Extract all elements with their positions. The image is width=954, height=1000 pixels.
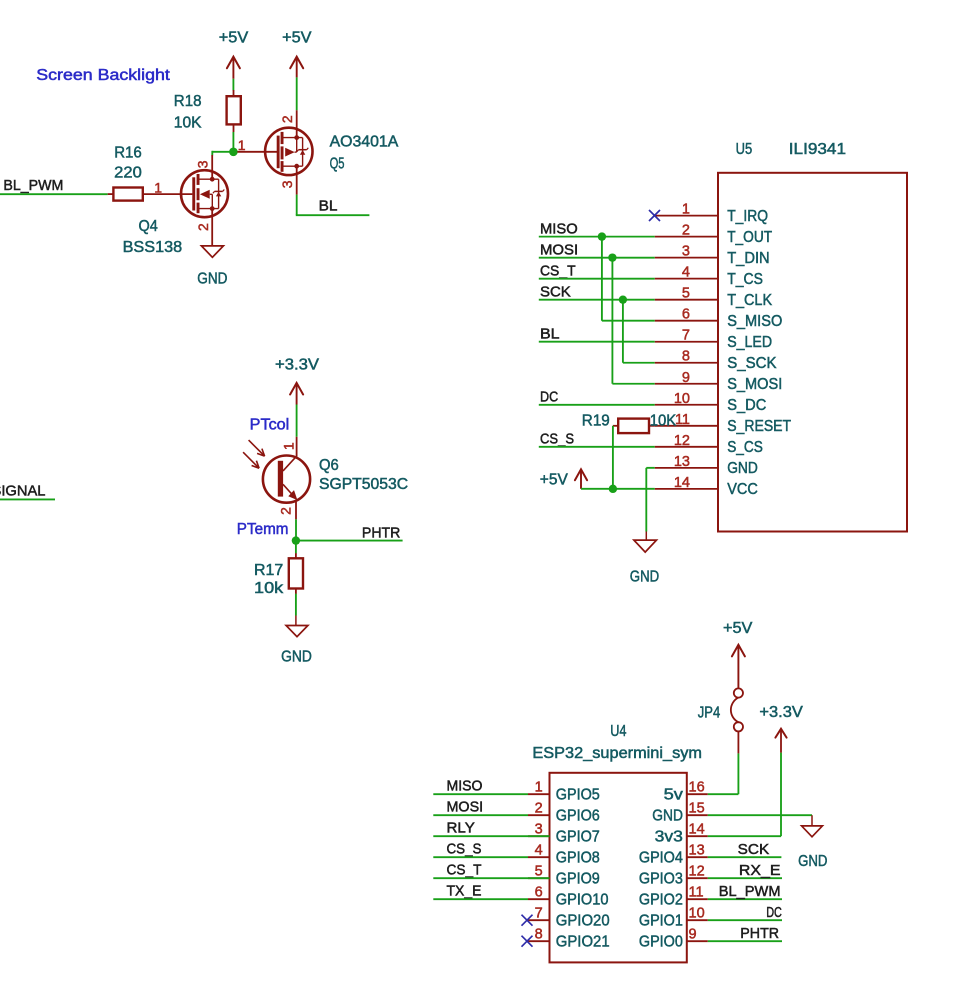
svg-text:6: 6 [682, 307, 690, 323]
U4 pin 8 GPIO21 [528, 940, 550, 942]
junction (MISO) [598, 232, 606, 240]
svg-text:2: 2 [277, 507, 293, 515]
svg-text:T_IRQ: T_IRQ [727, 208, 768, 225]
junction (MOSI) [608, 253, 616, 261]
svg-text:+5V: +5V [282, 30, 312, 47]
wire [295, 519, 297, 540]
svg-text:GPIO5: GPIO5 [556, 787, 600, 804]
svg-text:U5: U5 [736, 141, 753, 158]
svg-text:S_MISO: S_MISO [727, 313, 782, 330]
wire (junction to Q5 gate) [237, 151, 277, 153]
svg-text:BSS138: BSS138 [123, 239, 183, 256]
junction (+5V / R19) [609, 485, 617, 493]
U5 pin 4 T_CS [655, 278, 718, 280]
light arrow 2 [243, 452, 259, 468]
svg-text:S_RESET: S_RESET [727, 418, 791, 435]
wire PHTR [708, 940, 782, 942]
U5 pin 7 S_LED [655, 341, 718, 343]
svg-text:5v: 5v [664, 787, 684, 804]
U4 pin 3 GPIO7 [528, 835, 550, 837]
svg-text:10K: 10K [174, 114, 202, 131]
svg-text:5: 5 [682, 286, 690, 302]
svg-text:Q4: Q4 [139, 218, 159, 235]
wire SIGNAL [0, 498, 55, 500]
svg-text:ILI9341: ILI9341 [789, 141, 846, 158]
wire [295, 541, 297, 554]
wire SCK to S_SCK [622, 300, 624, 363]
svg-text:TX_E: TX_E [447, 883, 482, 900]
svg-text:PTemm: PTemm [237, 521, 289, 538]
svg-text:S_LED: S_LED [727, 334, 772, 351]
U5 pin 1 T_IRQ [655, 215, 718, 217]
junction (Q6 emitter / R17 / PHTR) [292, 536, 300, 544]
svg-text:2: 2 [279, 115, 295, 123]
svg-text:3v3: 3v3 [655, 829, 683, 846]
wire [296, 405, 298, 437]
U5 pin 12 S_CS [655, 446, 718, 448]
wire GND (U5 pin13) [646, 467, 654, 469]
svg-text:2: 2 [195, 223, 211, 231]
svg-text:RLY: RLY [447, 820, 475, 837]
svg-text:GND: GND [281, 649, 312, 666]
svg-text:AO3401A: AO3401A [330, 133, 399, 150]
svg-text:12: 12 [674, 433, 690, 449]
svg-text:10: 10 [674, 391, 690, 407]
svg-text:14: 14 [674, 475, 690, 491]
svg-text:8: 8 [682, 349, 690, 365]
svg-text:+3.3V: +3.3V [759, 704, 803, 721]
svg-text:MOSI: MOSI [540, 241, 578, 258]
svg-text:GPIO10: GPIO10 [556, 892, 609, 909]
svg-text:SGPT5053C: SGPT5053C [319, 476, 408, 493]
svg-text:GPIO8: GPIO8 [556, 850, 600, 867]
svg-text:+5V: +5V [723, 620, 753, 637]
U5 pin 13 GND [655, 467, 718, 469]
svg-text:GPIO21: GPIO21 [556, 934, 610, 951]
svg-text:GPIO20: GPIO20 [556, 913, 610, 930]
svg-text:GPIO3: GPIO3 [639, 871, 683, 888]
svg-text:MISO: MISO [540, 220, 578, 237]
svg-text:PHTR: PHTR [740, 925, 779, 942]
ground (U5) [645, 532, 647, 541]
svg-text:PHTR: PHTR [362, 524, 401, 541]
wire DC [539, 404, 655, 406]
U4 pin 15 GND [687, 814, 708, 816]
wire SCK [539, 299, 655, 301]
U5 pin 5 T_CLK [655, 299, 718, 301]
svg-text:Q5: Q5 [330, 155, 345, 172]
wire TX_E [433, 898, 528, 900]
svg-text:CS_T: CS_T [447, 862, 482, 879]
svg-text:GPIO4: GPIO4 [639, 850, 683, 867]
wire BL [539, 341, 655, 343]
svg-text:Screen Backlight: Screen Backlight [36, 67, 170, 84]
svg-text:GPIO0: GPIO0 [639, 934, 683, 951]
pin 3 (Q5 drain) [296, 166, 298, 194]
svg-text:2: 2 [535, 801, 543, 817]
wire PHTR [296, 540, 403, 542]
svg-text:T_OUT: T_OUT [727, 229, 772, 246]
resistor R19 [613, 425, 618, 427]
svg-text:R19: R19 [582, 412, 610, 429]
svg-text:3: 3 [279, 180, 295, 188]
svg-text:BL_PWM: BL_PWM [3, 177, 63, 194]
svg-text:SCK: SCK [738, 841, 770, 858]
pin 1 (Q6 collector) [296, 437, 298, 457]
svg-text:3: 3 [195, 160, 211, 168]
U4 pin 6 GPIO10 [528, 898, 550, 900]
ground (Q4 source) [201, 246, 223, 257]
wire CS_T [539, 278, 655, 280]
junction (R18 / Q4 drain / Q5 gate) [229, 148, 238, 157]
svg-text:GND: GND [652, 808, 683, 825]
svg-text:10k: 10k [254, 580, 283, 597]
wire BL_PWM [708, 898, 782, 900]
U4 pin 11 GPIO2 [687, 898, 708, 900]
svg-text:1: 1 [281, 442, 297, 450]
wire MOSI to S_MOSI [611, 258, 613, 384]
svg-text:MOSI: MOSI [447, 799, 484, 816]
svg-text:DC: DC [540, 389, 558, 406]
U5 pin 2 T_OUT [655, 236, 718, 238]
U4 pin 16 5v [687, 793, 708, 795]
svg-text:11: 11 [675, 412, 690, 428]
svg-text:CS_T: CS_T [540, 262, 576, 279]
pin 2 (Q4 source) [211, 209, 213, 246]
wire [232, 132, 234, 152]
wire [232, 79, 234, 91]
svg-text:JP4: JP4 [698, 705, 721, 722]
pin 3 (Q4 drain) [211, 155, 213, 179]
wire BL_PWM [0, 193, 108, 195]
svg-text:RX_E: RX_E [739, 862, 781, 879]
svg-text:+5V: +5V [540, 472, 569, 489]
wire DC [708, 919, 782, 921]
U4 pin 13 GPIO4 [687, 856, 708, 858]
resistor R18 [233, 90, 235, 96]
svg-text:BL_PWM: BL_PWM [719, 883, 781, 900]
U5 pin 3 T_DIN [655, 257, 718, 259]
svg-text:13: 13 [689, 843, 705, 859]
svg-text:SCK: SCK [540, 283, 571, 300]
svg-text:+3.3V: +3.3V [275, 356, 320, 373]
svg-text:S_SCK: S_SCK [727, 355, 777, 372]
U4 box (ESP32 supermini) [550, 773, 687, 963]
svg-text:R17: R17 [254, 562, 283, 579]
svg-text:T_CLK: T_CLK [727, 292, 773, 309]
U4 pin 7 GPIO20 [528, 919, 550, 921]
svg-text:MISO: MISO [447, 778, 483, 795]
wire RLY [433, 835, 549, 837]
svg-text:GPIO9: GPIO9 [556, 871, 600, 888]
svg-text:2: 2 [682, 223, 690, 239]
U4 pin 10 GPIO1 [687, 919, 708, 921]
svg-text:GND: GND [727, 460, 758, 477]
svg-text:4: 4 [682, 265, 690, 281]
svg-text:GPIO7: GPIO7 [556, 829, 600, 846]
light arrow 1 [249, 440, 265, 456]
svg-text:T_DIN: T_DIN [727, 250, 770, 267]
wire BL [296, 195, 298, 216]
U4 pin 1 GPIO5 [528, 793, 550, 795]
svg-text:R16: R16 [114, 145, 142, 162]
svg-text:SIGNAL: SIGNAL [0, 482, 46, 499]
wire GND (U4 pin15) [708, 814, 812, 816]
svg-text:16: 16 [689, 780, 705, 796]
U5 pin 14 VCC [655, 488, 718, 490]
svg-text:11: 11 [689, 885, 704, 901]
no-connect X (U5 pin 1 T_IRQ) [649, 210, 660, 221]
U5 pin 10 S_DC [655, 404, 718, 406]
svg-text:14: 14 [689, 822, 705, 838]
ground (R17) [295, 616, 297, 626]
U5 pin 8 S_SCK [655, 362, 718, 364]
svg-text:7: 7 [535, 906, 543, 922]
svg-text:220: 220 [114, 165, 142, 182]
wire SCK [708, 856, 782, 858]
jumper JP4 [737, 732, 739, 754]
svg-text:1: 1 [154, 179, 162, 195]
svg-text:BL: BL [540, 326, 560, 343]
svg-text:ESP32_supermini_sym: ESP32_supermini_sym [532, 745, 702, 762]
svg-text:6: 6 [535, 885, 543, 901]
svg-text:9: 9 [689, 927, 697, 943]
wire 3v3 to +3.3V [708, 835, 781, 837]
svg-text:15: 15 [689, 801, 705, 817]
wire [295, 594, 297, 616]
U4 pin 5 GPIO9 [528, 877, 550, 879]
svg-text:S_DC: S_DC [727, 397, 766, 414]
svg-text:GPIO1: GPIO1 [639, 913, 683, 930]
wire (R19 to +5V) [612, 426, 614, 489]
no-connect X (U4 pin 8) [522, 936, 533, 947]
pin 2 (Q5 source) [296, 110, 298, 137]
U4 pin 12 GPIO3 [687, 877, 708, 879]
svg-text:PTcol: PTcol [250, 417, 290, 434]
svg-text:GPIO6: GPIO6 [556, 808, 600, 825]
wire [296, 77, 298, 110]
svg-text:GND: GND [197, 271, 227, 288]
transistor Q5 (AO3401A P-MOSFET) [265, 128, 312, 175]
U4 pin 2 GPIO6 [528, 814, 550, 816]
wire MOSI [539, 257, 655, 259]
svg-text:1: 1 [238, 137, 246, 153]
wire MISO to S_MISO [601, 237, 603, 321]
svg-text:DC: DC [766, 904, 782, 921]
svg-text:13: 13 [674, 454, 690, 470]
pin 2 (Q6 emitter) [295, 502, 297, 520]
resistor R16 [108, 193, 114, 195]
no-connect X (U4 pin 7) [522, 915, 533, 926]
wire CS_T [433, 877, 549, 879]
svg-text:+5V: +5V [219, 30, 249, 47]
svg-text:BL: BL [319, 198, 338, 215]
svg-text:S_CS: S_CS [727, 439, 763, 456]
wire MISO [539, 236, 655, 238]
U5 pin 6 S_MISO [655, 320, 718, 322]
svg-text:T_CS: T_CS [727, 271, 763, 288]
svg-text:1: 1 [682, 202, 690, 218]
wire CS_S [539, 446, 655, 448]
U5 pin 9 S_MOSI [655, 383, 718, 385]
U5 pin 11 S_RESET [655, 425, 718, 427]
svg-text:1: 1 [535, 780, 543, 796]
svg-text:10K: 10K [650, 412, 677, 429]
wire 5v to JP4 [708, 793, 739, 795]
svg-text:12: 12 [689, 864, 705, 880]
wire MISO [433, 793, 528, 795]
svg-text:GND: GND [630, 569, 659, 586]
svg-text:7: 7 [682, 328, 690, 344]
wire RX_E [708, 877, 782, 879]
phototransistor Q6 (SGPT5053C) [263, 456, 310, 503]
svg-text:CS_S: CS_S [540, 431, 574, 448]
U4 pin 9 GPIO0 [687, 940, 708, 942]
svg-text:4: 4 [535, 843, 543, 859]
svg-text:VCC: VCC [727, 481, 758, 498]
junction (SCK) [619, 295, 627, 303]
svg-text:U4: U4 [610, 723, 627, 740]
transistor Q4 (BSS138 N-MOSFET) [143, 170, 228, 217]
svg-text:3: 3 [682, 244, 690, 260]
wire CS_S [433, 856, 528, 858]
ground (U4) [811, 815, 813, 826]
svg-text:CS_S: CS_S [447, 841, 482, 858]
svg-text:R18: R18 [174, 93, 202, 110]
U4 pin 14 3v3 [687, 835, 708, 837]
svg-text:Q6: Q6 [319, 457, 339, 474]
svg-text:10: 10 [689, 906, 705, 922]
svg-text:GND: GND [798, 853, 827, 870]
U4 pin 4 GPIO8 [528, 856, 550, 858]
U5 box (ILI9341) [718, 173, 907, 532]
svg-text:S_MOSI: S_MOSI [727, 376, 782, 393]
svg-text:8: 8 [535, 927, 543, 943]
resistor R17 [295, 553, 297, 558]
svg-text:GPIO2: GPIO2 [639, 892, 683, 909]
svg-text:9: 9 [682, 370, 690, 386]
wire [212, 151, 233, 153]
wire +5V to VCC [581, 488, 655, 490]
wire MOSI [433, 814, 528, 816]
